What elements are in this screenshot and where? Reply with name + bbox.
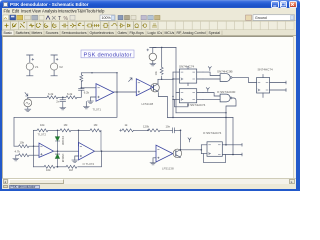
FF3 pin wires [263,75,286,98]
wire U6 out to FF3 [232,78,257,83]
svg-text:1M: 1M [64,123,69,127]
TOOLBAR1 [3,15,295,22]
collector net wire [158,78,173,80]
svg-text:Flip-flops: Flip-flops [130,31,144,35]
svg-text:PSK demodulator: PSK demodulator [11,185,37,189]
resistor R12 120k [143,124,173,131]
svg-text:Insert: Insert [21,8,32,13]
ground below C1 [60,108,66,110]
ground at R5 [13,155,19,161]
FF4 feedback loop [203,154,225,163]
svg-text:1N4148: 1N4148 [61,136,64,145]
voltage source V2 [51,55,64,76]
svg-text:1k: 1k [125,123,129,127]
flip-flop FF2 SN74HC74 [179,89,205,108]
wire to U1 minus input [81,87,96,89]
FF4 pin stubs [201,145,242,155]
svg-text:T&M: T&M [77,8,86,13]
svg-text:6.2k: 6.2k [84,91,90,95]
diode D2 1N4148 [55,151,64,167]
schematic title label [81,50,134,58]
svg-text:V2: V2 [59,65,63,69]
svg-text:Gates: Gates [118,31,128,35]
resistor R7 1M [60,123,90,132]
resistor R collector 10k (vertical) [154,48,163,80]
svg-text:O SN74HC00: O SN74HC00 [217,90,236,94]
plus mark [120,129,122,131]
wire R1 to R2 [58,96,66,98]
upper net under FF2 [176,112,226,114]
FF2 wraparound wire [175,99,189,106]
svg-text:◄: ◄ [4,180,7,184]
voltage source V3 [147,48,157,64]
ground at U1 plus [88,101,94,103]
svg-text:Logic ICs: Logic ICs [148,31,163,35]
svg-text:►: ► [290,180,293,184]
svg-text:10k: 10k [154,71,158,76]
open pin arrow FF2 [206,88,209,92]
wire VCC rail [153,47,176,49]
open pin arrow FF1 [208,67,211,71]
voltage source V1 [26,55,39,76]
capacitor C2 [79,88,85,90]
filter row wire [33,130,35,167]
NAND gate U6 SN74HC00 [217,69,233,81]
wire Q1 emitter to lower net [158,93,167,118]
wire VG1 to R1 [28,96,47,98]
resistor R6 10k [37,123,60,132]
flip-flop FF1 SN74HC74 [179,65,197,84]
svg-text:10n: 10n [166,124,171,128]
wire U5 minus to ground [153,158,156,163]
wire FF2 to NAND U7 [203,93,220,100]
capacitor C1 2n [56,97,65,107]
svg-text:Interactive: Interactive [58,8,78,13]
svg-text:RF: RF [177,31,182,35]
svg-text:TL071: TL071 [93,108,102,112]
wire node E down to Q2 [180,130,182,150]
svg-text:PSK demodulator - Schematic Ed: PSK demodulator - Schematic Editor [10,2,89,7]
resistor R4 10k [14,141,39,148]
op-amp U4 TL072 [79,142,95,165]
resistor R11 1k [122,123,148,132]
FF2 bottom stub [187,103,189,106]
resistor R3 feedback (vertical) [80,73,90,95]
wire U4 plus to ground [75,156,79,160]
svg-text:T: T [58,16,61,22]
open pin arrow [188,138,191,142]
svg-text:100%: 100% [102,16,112,20]
svg-text:120k: 120k [143,124,150,128]
svg-text:%: % [64,16,69,22]
FF3 open pin ticks [285,81,287,91]
svg-text:LF51138: LF51138 [162,167,174,171]
op-amp U2 comparator [136,79,153,106]
resistor R9 10k [44,165,55,172]
svg-text:Analog Control: Analog Control [183,31,206,35]
wire U1 plus input to ground [91,97,97,101]
svg-text:View: View [32,8,41,13]
vertical net x173 [172,72,174,117]
op-amp U1 TL071 [93,84,114,112]
svg-text:4.7k: 4.7k [15,150,21,154]
op-amp U5 [156,145,174,170]
svg-text:6.2k: 6.2k [48,92,54,96]
node D [147,130,149,132]
svg-text:Ground: Ground [255,16,267,20]
svg-text:SN74HC0B: SN74HC0B [217,69,233,73]
diode D1 1N4148 [55,130,64,151]
svg-text:Tools: Tools [86,8,96,13]
svg-text:O SN74HC74: O SN74HC74 [187,103,206,107]
svg-text:SN74HC74: SN74HC74 [258,68,274,72]
feedback wire top [81,72,117,74]
ground below VG1 [25,109,31,111]
NAND gate U7 SN74HC00 [217,90,236,102]
FF1 pin stubs [173,67,203,86]
svg-text:MCUs: MCUs [165,31,175,35]
resistor R5 4.7k [15,150,39,157]
flip-flop FF4 SN74HC74 [203,131,222,156]
vertical net x233 [232,118,234,155]
node U1 output [116,91,118,93]
resistor R10 1M [66,165,77,172]
op-amp U3 TL072 [38,132,54,157]
node feedback left [91,72,92,73]
svg-text:10k: 10k [40,123,45,127]
capacitor C3 10n [166,124,181,132]
svg-text:1N4148: 1N4148 [61,153,64,162]
node B [57,130,59,132]
wire node C to U4 input [78,130,80,146]
svg-text:Special: Special [209,31,221,35]
ground stub 2 [85,102,87,107]
wire R2 to C2 [77,90,81,97]
svg-text:V1: V1 [35,65,39,69]
svg-text:Edit: Edit [12,8,20,13]
wire box lower net [168,117,234,119]
FF2 pin stubs [173,93,203,100]
svg-text:10k: 10k [46,168,51,172]
svg-text:1M: 1M [69,168,74,172]
wire FF1 to NAND U6 [203,72,220,79]
wire U1 output down to lower stage [14,73,117,146]
node U4 out [101,150,103,152]
node E [180,130,182,132]
generator VG1 [24,93,32,110]
transistor Q2 [173,149,182,158]
flip-flop FF3 SN74HC74 [257,68,273,93]
transistor Q1 [151,79,160,92]
node diode bottom [57,166,59,168]
svg-text:PSK demodulator: PSK demodulator [84,52,132,58]
node feedback right [116,72,117,73]
svg-text:File: File [4,8,11,13]
svg-text:Switches: Switches [16,31,30,35]
svg-text:Help: Help [96,8,105,13]
svg-text:6.2k: 6.2k [67,92,73,96]
node junction A [62,97,64,99]
svg-text:10k: 10k [20,141,25,145]
svg-text:Meters: Meters [32,31,43,35]
wire U7 out [226,98,236,145]
wire U3 out to U4 [54,150,79,152]
ground below V3 [150,64,156,66]
wire U4 out to U5 [95,150,157,152]
svg-text:Analysis: Analysis [42,8,57,13]
resistor R1 6.2k [47,92,58,99]
wire op-amp U1 out to U2 [114,91,137,93]
FF4 clock node [201,149,203,151]
svg-text:LF51138: LF51138 [142,102,154,106]
svg-text:2n: 2n [56,100,60,104]
vertical net x176 [175,48,177,113]
ground at U4 [72,160,78,162]
node C [78,130,80,132]
FF4 out nodes [225,144,227,146]
svg-text:TL072: TL072 [38,132,47,136]
wire Q2 to FF4 [181,149,202,151]
probe arrow VF1 [129,78,132,82]
resistor R8 1M [90,123,101,151]
node Q2 collector [180,149,182,151]
svg-text:Basic: Basic [4,31,13,35]
FF4 open pin ticks [241,143,243,156]
svg-text:1M: 1M [94,123,99,127]
svg-text:Sources: Sources [46,31,59,35]
svg-text:O TL072: O TL072 [83,162,95,166]
resistor R2 6.2k [66,92,77,99]
svg-text:Semiconductors: Semiconductors [62,31,87,35]
svg-text:Optoelectronics: Optoelectronics [90,31,115,35]
svg-text:O SN74HC74: O SN74HC74 [203,131,222,135]
TOOLBAR2 [2,21,294,29]
node VCC tap [161,47,162,48]
ground at U5 [150,163,156,165]
node U3 out [57,150,59,152]
svg-text:SN74HC74: SN74HC74 [179,65,195,69]
node minus input U1 [81,87,82,88]
bottom feedback wire [34,151,102,167]
